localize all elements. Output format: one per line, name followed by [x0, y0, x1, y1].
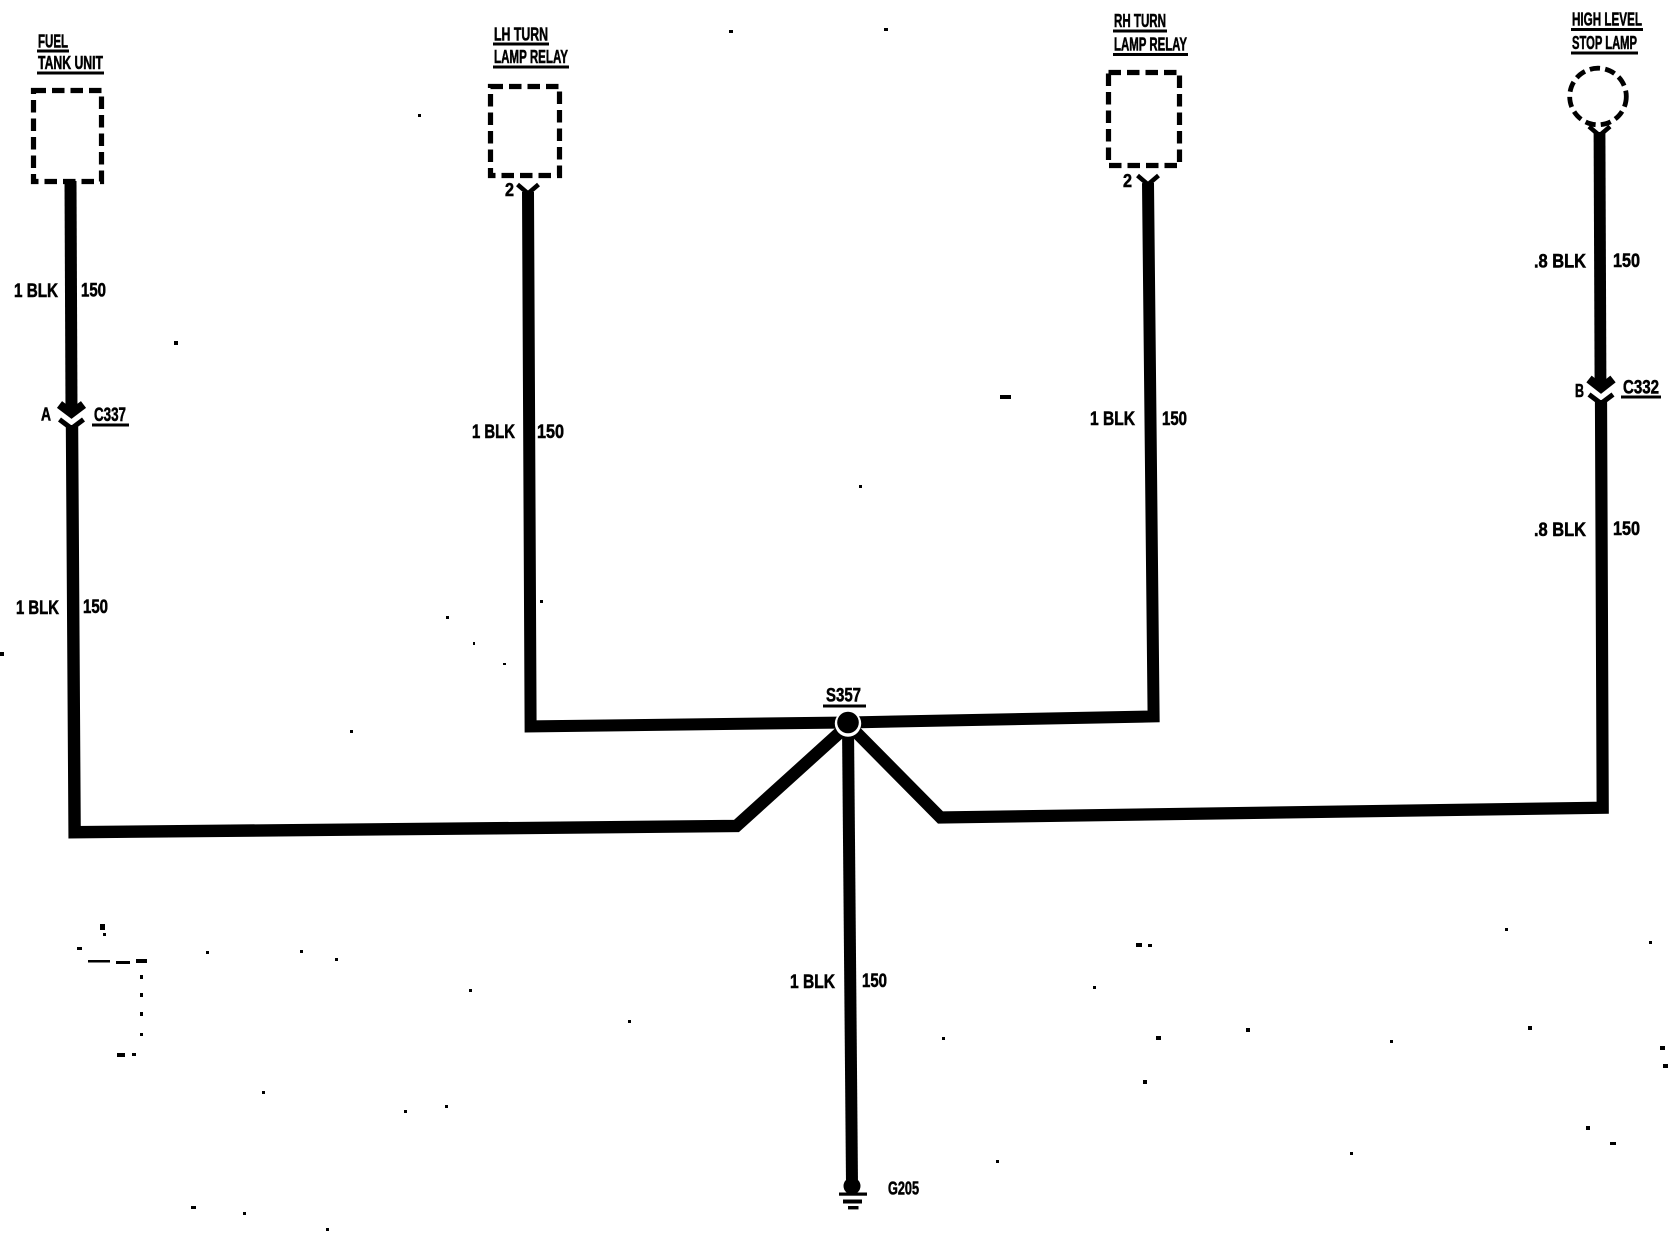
svg-text:G205: G205	[888, 1179, 919, 1199]
lh turn lamp relay label	[493, 25, 569, 69]
svg-text:1 BLK: 1 BLK	[790, 972, 835, 993]
label 1 BLK 150 lh	[472, 422, 564, 443]
svg-text:150: 150	[83, 597, 108, 618]
svg-text:RH TURN: RH TURN	[1114, 11, 1166, 31]
rh turn lamp relay label	[1113, 11, 1188, 56]
label .8 BLK 150 high lower	[1534, 519, 1640, 541]
ground G205 symbol	[839, 1178, 867, 1210]
wire high level lower run to S357	[850, 400, 1603, 818]
lh turn lamp relay box	[491, 87, 560, 176]
wire lh relay run to S357	[528, 192, 848, 726]
svg-text:150: 150	[81, 281, 106, 302]
wire ground vertical	[848, 726, 852, 1184]
svg-text:1 BLK: 1 BLK	[1090, 409, 1135, 430]
svg-text:150: 150	[1613, 519, 1640, 540]
wire high level vertical upper	[1600, 132, 1601, 386]
splice S357 label	[823, 686, 866, 708]
label 1 BLK 150 rh	[1090, 409, 1187, 430]
connector B labels	[1575, 378, 1661, 402]
pin chevron lh relay	[518, 185, 539, 194]
label .8 BLK 150 high upper	[1534, 251, 1640, 273]
svg-text:A: A	[41, 405, 51, 425]
high level stop lamp bulb circle	[1570, 68, 1627, 125]
svg-text:.8 BLK: .8 BLK	[1534, 252, 1586, 273]
pin chevron high level lamp	[1589, 127, 1610, 136]
wire fuel tank vertical	[71, 181, 72, 411]
connector A symbol	[60, 405, 84, 429]
svg-text:S357: S357	[826, 686, 861, 707]
svg-text:LH TURN: LH TURN	[494, 25, 548, 45]
high level stop lamp label	[1571, 10, 1643, 55]
svg-text:.8 BLK: .8 BLK	[1534, 520, 1586, 541]
svg-text:C337: C337	[94, 405, 126, 426]
svg-text:150: 150	[862, 971, 887, 992]
svg-text:LAMP RELAY: LAMP RELAY	[494, 47, 568, 67]
svg-text:B: B	[1575, 381, 1584, 401]
svg-text:LAMP RELAY: LAMP RELAY	[1114, 35, 1187, 55]
connector A labels	[41, 405, 129, 427]
svg-text:1 BLK: 1 BLK	[472, 422, 515, 443]
svg-text:TANK UNIT: TANK UNIT	[38, 53, 103, 73]
pin chevron rh relay	[1138, 176, 1159, 185]
svg-text:C332: C332	[1623, 378, 1659, 399]
svg-text:2: 2	[1123, 171, 1132, 191]
splice S357 dot	[835, 710, 861, 736]
fuel tank unit label	[37, 32, 104, 75]
svg-text:HIGH LEVEL: HIGH LEVEL	[1572, 10, 1642, 30]
svg-text:2: 2	[505, 180, 514, 200]
svg-text:1 BLK: 1 BLK	[14, 281, 58, 302]
svg-text:150: 150	[537, 422, 564, 443]
rh turn lamp relay box	[1109, 73, 1180, 166]
label 1 BLK 150 fuel lower	[16, 597, 108, 619]
label 1 BLK 150 fuel upper	[14, 281, 106, 303]
connector B symbol	[1589, 379, 1613, 404]
svg-text:1 BLK: 1 BLK	[16, 598, 59, 619]
svg-text:STOP LAMP: STOP LAMP	[1572, 33, 1637, 53]
svg-text:150: 150	[1162, 409, 1187, 430]
wire rh relay run to S357	[848, 183, 1154, 723]
svg-text:FUEL: FUEL	[38, 32, 68, 52]
wire fuel lower run to S357	[72, 425, 848, 832]
svg-text:150: 150	[1613, 251, 1640, 272]
label 1 BLK 150 ground	[790, 971, 887, 993]
fuel tank unit box	[34, 91, 102, 182]
